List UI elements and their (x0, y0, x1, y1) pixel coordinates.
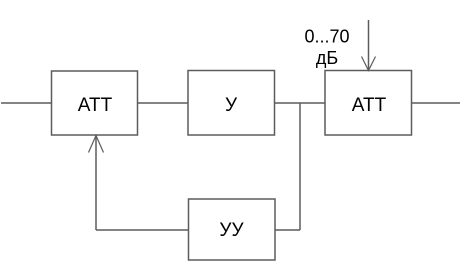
svg-text:0...70: 0...70 (304, 27, 349, 47)
wire input line (1, 102, 51, 104)
wire feedback vertical up to ATT1 (95, 135, 97, 230)
block U (amplifier) (188, 71, 275, 136)
wire output line (412, 102, 461, 104)
wire junction down from node between U and ATT2 (299, 103, 301, 230)
block ATT2 (325, 71, 412, 136)
svg-text:УУ: УУ (219, 220, 244, 241)
svg-text:АТТ: АТТ (78, 95, 113, 116)
wire UU left side feedback (96, 229, 189, 231)
wire ATT1 to U (138, 102, 189, 104)
svg-text:У: У (225, 95, 238, 116)
block UU (control unit) (189, 199, 276, 260)
arrowhead into ATT1 bottom (89, 136, 104, 153)
block ATT1 (52, 71, 138, 135)
svg-text:дБ: дБ (316, 48, 338, 68)
wire U to ATT2 with junction (275, 102, 326, 104)
wire to UU right side (275, 229, 300, 231)
svg-text:АТТ: АТТ (352, 95, 387, 116)
arrow control input into ATT2 top (368, 20, 370, 71)
